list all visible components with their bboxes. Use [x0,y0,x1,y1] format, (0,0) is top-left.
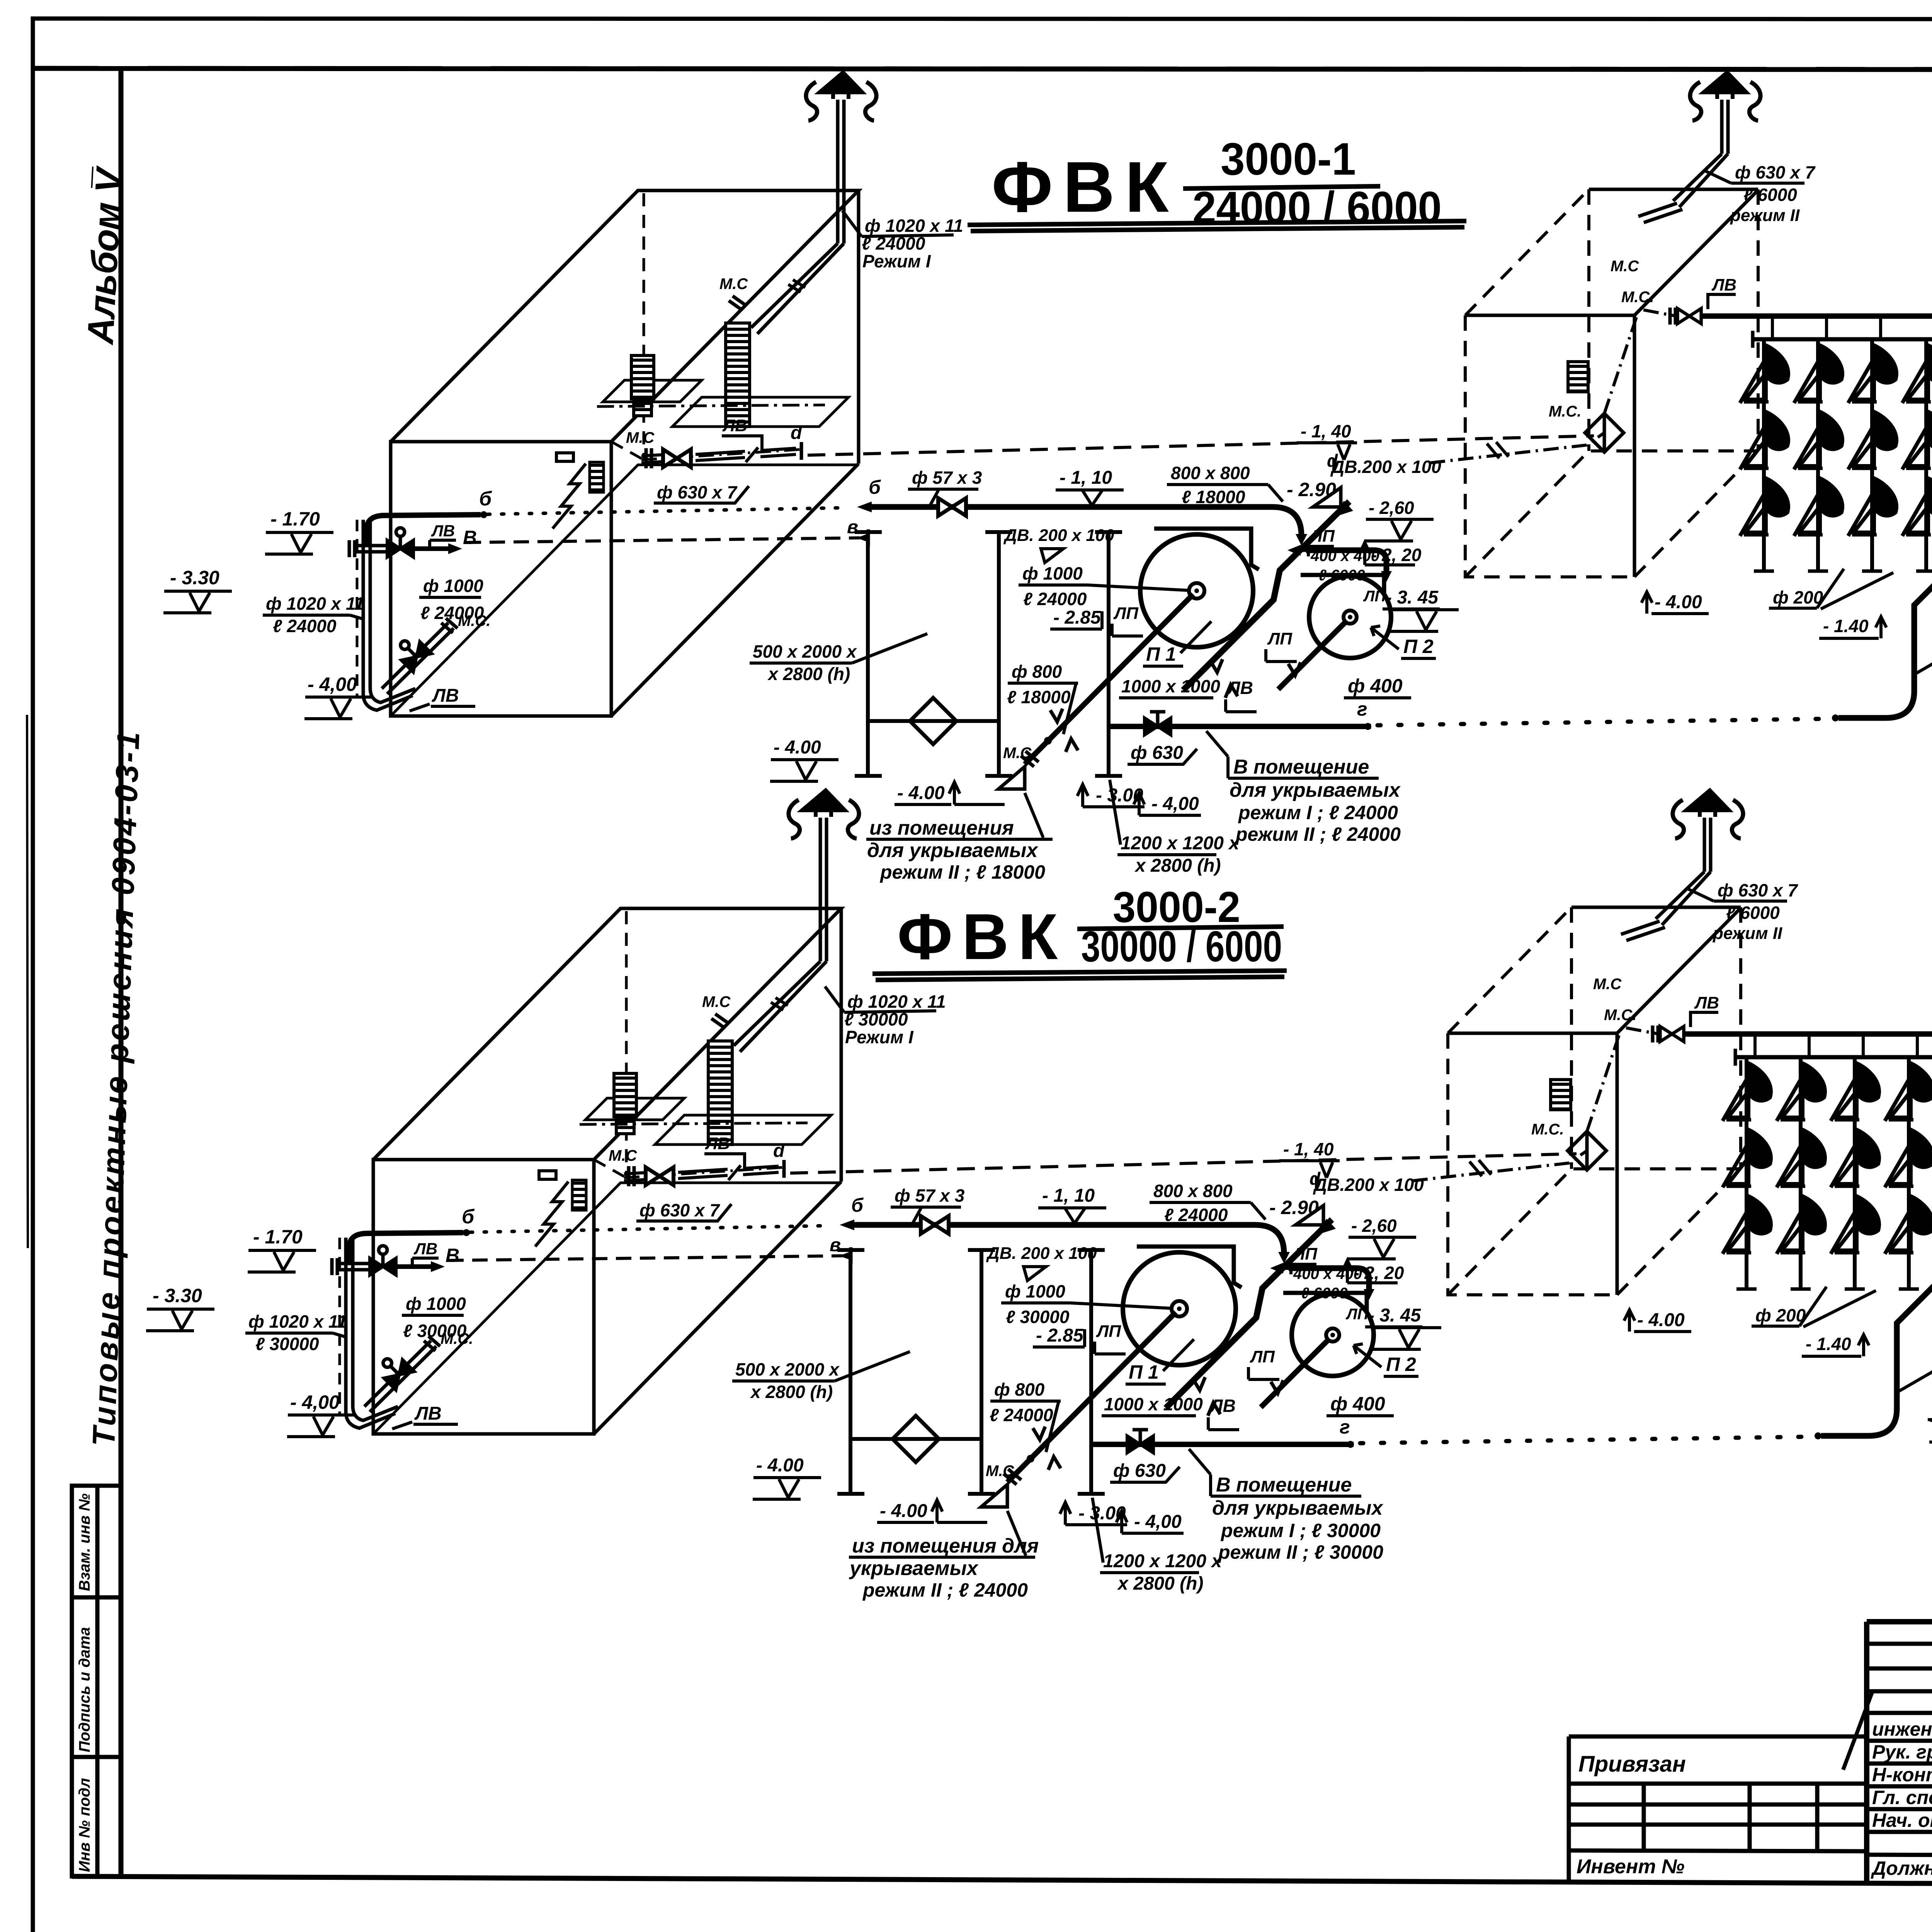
svg-text:ф 1020 х 11: ф 1020 х 11 [865,216,963,236]
svg-text:ЛП: ЛП [1345,1306,1369,1323]
svg-text:режим II ; ℓ 30000: режим II ; ℓ 30000 [1218,1541,1383,1563]
svg-text:ℓ 6000: ℓ 6000 [1301,1285,1348,1302]
svg-text:ЛВ: ЛВ [705,1134,730,1153]
svg-text:М.С: М.С [609,1147,637,1164]
junction dot on shaft [1044,737,1052,745]
filter platform slabs [603,380,849,427]
svg-text:- 4,00: - 4,00 [1151,794,1199,814]
valve MC in box [663,449,691,467]
roof vent 1 [806,72,876,121]
main distribution duct [1702,313,1932,319]
svg-text:ДВ.200 х 100: ДВ.200 х 100 [1313,1175,1424,1195]
svg-text:М.С: М.С [1003,745,1032,762]
diamond damper [910,698,956,744]
dashed line v [466,538,860,543]
diffuser 1.2 [1740,411,1789,469]
flange on lower pipe [441,618,457,633]
vent 1 shaft [838,100,844,243]
svg-text:ℓ 24000: ℓ 24000 [990,1405,1053,1425]
title block: middle grid [1867,1622,1932,1884]
svg-text:ф 200: ф 200 [1773,587,1823,607]
supply plenum left wall [868,532,999,776]
vent 1 duct break marks [788,280,805,292]
svg-text:800 х 800: 800 х 800 [1153,1181,1233,1201]
svg-text:М.С.: М.С. [458,612,490,629]
dashed line d [808,436,1594,455]
svg-text:1200 х 1200 х: 1200 х 1200 х [1121,833,1240,854]
svg-text:- 4.00: - 4.00 [1637,1310,1685,1330]
svg-text:укрываемых: укрываемых [849,1557,979,1580]
svg-text:ф 1020 х 11: ф 1020 х 11 [248,1311,347,1332]
node b dot [480,511,487,518]
svg-text:М.С.: М.С. [1549,403,1581,420]
svg-text:ф 57 х 3: ф 57 х 3 [912,468,982,488]
svg-text:ФВК: ФВК [897,900,1067,973]
svg-text:- 4,00: - 4,00 [1134,1512,1182,1532]
duct to point b curved [367,515,481,544]
arrowhead on bypass top [1334,501,1353,517]
svg-text:ф 1000: ф 1000 [406,1294,466,1314]
svg-text:- 1, 40: - 1, 40 [1301,421,1351,441]
svg-text:Н-контр: Н-контр [1872,1764,1932,1786]
air filter hatched block large [726,323,750,427]
fan P2 hub [1344,611,1357,624]
hatched wall strip [590,462,604,492]
svg-text:х 2800 (h): х 2800 (h) [1134,855,1221,876]
svg-text:- 4.00: - 4.00 [1655,592,1702,612]
diffuser 2.1 [1794,345,1843,403]
svg-text:- 1, 40: - 1, 40 [1283,1139,1334,1159]
triangle symbol at shaft end [998,767,1025,789]
svg-text:М.С: М.С [986,1463,1014,1480]
inner frame left border [119,69,124,1876]
svg-text:ЛВ: ЛВ [432,685,459,706]
diffuser 2.2 [1794,411,1843,469]
svg-text:из помещения: из помещения [869,817,1014,839]
svg-text:500 х 2000 х: 500 х 2000 х [753,641,857,662]
diffuser 1.1 [1740,345,1789,403]
duct line g [1110,724,1371,729]
svg-text:М.С.: М.С. [440,1330,473,1347]
svg-text:- 1.40: - 1.40 [1806,1334,1851,1354]
svg-text:- 2, 20: - 2, 20 [1354,1263,1404,1283]
svg-text:ДВ. 200 х 100: ДВ. 200 х 100 [986,1244,1097,1263]
svg-text:ф 800: ф 800 [1012,662,1062,682]
svg-text:- 4.00: - 4.00 [756,1455,804,1476]
svg-text:В: В [463,527,477,548]
LP arrow into fan [1294,549,1332,552]
svg-text:режим II: режим II [1713,924,1782,943]
svg-text:- 4.00: - 4.00 [897,783,945,803]
break slash on d pipe [746,447,758,462]
svg-text:1200 х 1200 х: 1200 х 1200 х [1103,1551,1223,1571]
svg-text:ЛП: ЛП [1267,629,1293,648]
arrowhead into P1 [1296,534,1307,546]
fan P2 casing [1301,575,1384,594]
svg-text:- 3.30: - 3.30 [153,1285,202,1306]
svg-text:режим II ; ℓ 24000: режим II ; ℓ 24000 [1235,823,1401,845]
svg-text:ф 57 х 3: ф 57 х 3 [895,1185,965,1206]
svg-text:в: в [847,517,858,537]
svg-text:- 4.00: - 4.00 [880,1501,927,1521]
svg-text:М.С.: М.С. [1604,1007,1636,1024]
inlet duct dash-dot [1430,433,1604,463]
svg-text:Режим I: Режим I [862,251,931,271]
svg-text:П 2: П 2 [1386,1354,1416,1375]
svg-text:- 1.40: - 1.40 [1823,616,1869,636]
svg-text:П 1: П 1 [1129,1361,1159,1383]
hatched unit in right box [1568,362,1588,392]
node g2 dot [1832,714,1839,721]
svg-text:ф 630: ф 630 [1113,1461,1166,1481]
left stamp table [72,1486,121,1876]
left box hidden edges [611,193,644,460]
svg-text:П 2: П 2 [1403,636,1434,657]
svg-text:- 4.00: - 4.00 [774,737,821,758]
svg-text:Взам. инв №: Взам. инв № [76,1493,93,1591]
valve on line b [938,498,966,516]
damper flag mid [1041,549,1063,563]
svg-text:- 2.85: - 2.85 [1053,607,1101,628]
svg-text:М.С: М.С [1593,976,1622,993]
arrowhead v [856,533,869,543]
svg-text:800 х 800: 800 х 800 [1171,463,1250,483]
svg-text:ф 1020 х 11: ф 1020 х 11 [847,992,946,1012]
svg-text:ЛВ: ЛВ [413,1240,437,1258]
zigzag break [553,464,586,529]
intake header pipe [355,546,386,552]
vent 2 shaft [1722,100,1728,154]
svg-text:В помещение: В помещение [1216,1474,1352,1496]
air heater hatched block small [631,355,654,399]
stub 3 [1879,316,1882,339]
svg-text:ЛВ: ЛВ [431,522,455,540]
svg-text:ℓ 30000: ℓ 30000 [255,1334,319,1354]
lower inclined pipe [382,623,454,694]
plenum caps [855,532,1012,776]
inner frame bottom border [72,1876,1932,1886]
flow mark L on shaft [1066,739,1078,752]
svg-text:d: d [773,1141,785,1161]
svg-text:- 1.70: - 1.70 [253,1226,303,1248]
right shelter box solid edges [1465,189,1758,577]
bypass S duct [1183,502,1349,690]
svg-text:М.С: М.С [719,276,748,293]
svg-text:режим II ; ℓ 18000: режим II ; ℓ 18000 [879,861,1045,883]
svg-text:Нач. отд.: Нач. отд. [1872,1810,1932,1831]
flange on inclined duct [729,296,746,310]
svg-text:режим II ; ℓ 24000: режим II ; ℓ 24000 [862,1579,1028,1601]
stub 1 [1771,316,1774,339]
fan P1 hub [1189,583,1204,599]
svg-text:- 2,60: - 2,60 [1369,498,1414,518]
valve with hand wheel V2 [393,633,432,672]
svg-text:из помещения для: из помещения для [852,1535,1039,1557]
svg-text:ф 400: ф 400 [1330,1393,1385,1415]
diffuser 3.1 [1848,345,1897,403]
fan P1 shaft duct [1025,594,1193,764]
svg-text:ЛП: ЛП [1310,527,1335,546]
left shelter box outline [391,190,859,716]
svg-text:М.С: М.С [1611,258,1639,275]
svg-text:б: б [462,1206,475,1228]
svg-text:- 3. 45: - 3. 45 [1368,1305,1421,1326]
duct elbow into fan P1 [1272,507,1301,536]
arrowhead b [857,502,872,512]
svg-text:ф 630 х 7: ф 630 х 7 [1735,162,1816,182]
svg-text:ЛП: ЛП [1292,1245,1318,1264]
shaft duct 1200x1200 [1107,532,1111,776]
svg-text:ф 630: ф 630 [1131,743,1183,763]
damper triangle right [1313,488,1341,507]
damper triangle right [1296,1206,1323,1225]
svg-text:для укрываемых: для укрываемых [1212,1497,1383,1519]
svg-text:в: в [830,1235,841,1255]
diffuser 3.3 [1848,478,1897,536]
tick at d [800,442,803,460]
dotted line g [1378,719,1831,725]
svg-text:ф 630 х 7: ф 630 х 7 [639,1200,720,1220]
main drop diagonal duct [1838,339,1932,718]
manifold duct [1753,337,1932,342]
svg-text:- 1, 10: - 1, 10 [1042,1185,1095,1206]
svg-text:В: В [446,1245,459,1266]
svg-text:ДВ. 200 х 100: ДВ. 200 х 100 [1003,526,1114,545]
break mark on bypass [1210,659,1223,672]
air filter hatched block small2 [634,400,651,416]
svg-text:ℓ 18000: ℓ 18000 [1007,687,1071,707]
roof vent 2 [1690,72,1760,121]
plenum bottom duct [868,719,999,723]
diffuser 4.1 [1902,345,1932,403]
break mark on P2 shaft [1288,662,1301,675]
svg-text:х 2800 (h): х 2800 (h) [767,664,850,684]
equipment axis dash-dot [597,405,825,406]
svg-text:Рук. гр.: Рук. гр. [1872,1741,1932,1763]
svg-text:ф 1020 х 11: ф 1020 х 11 [266,594,364,614]
valve with hand wheel V1 [387,528,413,557]
right shelter box dashed edges [1465,189,1758,577]
svg-text:ФВК: ФВК [992,147,1179,227]
break marks on inlet [1487,442,1509,458]
fan P2 shaft duct [1278,621,1347,689]
svg-text:инженер: инженер [1872,1718,1932,1740]
svg-text:ℓ 24000: ℓ 24000 [1023,589,1087,609]
title block: left attachment table [1569,1736,1867,1883]
svg-text:М.С: М.С [626,429,655,446]
svg-text:ℓ 24000: ℓ 24000 [273,616,337,636]
diffuser 3.2 [1848,411,1897,469]
svg-text:ℓ 18000: ℓ 18000 [1182,487,1245,507]
svg-text:ℓ 6000: ℓ 6000 [1726,903,1780,923]
svg-text:1000 х 1000: 1000 х 1000 [1104,1394,1203,1414]
intake pipe vertical [363,520,370,694]
svg-text:- 2,60: - 2,60 [1351,1216,1397,1236]
svg-text:ф 400: ф 400 [1348,675,1403,697]
svg-text:режим I ; ℓ 24000: режим I ; ℓ 24000 [1238,802,1398,823]
svg-text:ЛВ: ЛВ [722,416,747,435]
svg-text:ℓ 24000: ℓ 24000 [862,233,925,253]
svg-text:х 2800 (h): х 2800 (h) [750,1382,833,1402]
svg-text:Инвент №: Инвент № [1577,1855,1685,1878]
svg-text:ЛВ: ЛВ [414,1403,442,1424]
fan P1 scroll [1140,534,1253,647]
wall sleeve rect [556,453,573,461]
diffuser 1.3 [1740,478,1789,536]
svg-text:Подпись и дата: Подпись и дата [76,1627,93,1752]
svg-text:ЛП: ЛП [1096,1322,1121,1341]
svg-text:ЛВ: ЛВ [1711,276,1736,294]
duct 400x400 to P2 [1306,550,1386,575]
svg-text:3000-1: 3000-1 [1221,134,1356,185]
svg-text:В помещение: В помещение [1233,756,1369,778]
fan P1 casing [1154,529,1259,570]
svg-text:- 1.70: - 1.70 [270,508,320,530]
manifold end ticks [1753,331,1932,348]
diffuser 2.3 [1794,478,1843,536]
svg-text:М.С: М.С [702,993,731,1010]
svg-text:ДВ.200 х 100: ДВ.200 х 100 [1330,457,1441,477]
pipe double segment right [696,448,796,461]
riser 1 [1762,339,1766,571]
svg-text:режим II: режим II [1730,206,1800,225]
diagonal strike through engineer cell [1843,1692,1872,1770]
svg-text:ЛВ: ЛВ [1209,1396,1236,1416]
svg-text:30000 / 6000: 30000 / 6000 [1081,922,1282,971]
svg-text:ф 1000: ф 1000 [423,576,483,596]
pipe segment at MC valve [641,455,662,463]
svg-text:ЛП: ЛП [1113,604,1139,623]
svg-text:- 4,00: - 4,00 [308,673,357,695]
svg-text:для укрываемых: для укрываемых [1230,779,1401,801]
svg-text:500 х 2000 х: 500 х 2000 х [735,1359,840,1379]
arrowhead into P2 [1381,571,1392,582]
svg-text:ф 630 х 7: ф 630 х 7 [657,482,738,502]
svg-text:Инв № подл: Инв № подл [76,1778,93,1872]
riser duct dash-dot [1604,309,1676,413]
diamond unit [1585,413,1624,452]
svg-text:г: г [1357,698,1367,720]
svg-text:ЛП: ЛП [1250,1347,1275,1366]
svg-text:ф 630 х 7: ф 630 х 7 [1718,880,1798,900]
diffuser 4.3 [1902,478,1932,536]
svg-text:ℓ 6000: ℓ 6000 [1743,185,1797,205]
intake pipe dashed guide [356,520,359,696]
flange at top valve [1670,308,1675,325]
svg-text:ℓ 30000: ℓ 30000 [844,1009,908,1029]
svg-text:ЛП: ЛП [1363,588,1386,605]
svg-text:Привязан: Привязан [1578,1752,1686,1777]
svg-text:б: б [479,488,492,510]
svg-text:- 4,00: - 4,00 [290,1391,340,1413]
svg-text:ф 1000: ф 1000 [1005,1281,1065,1301]
svg-text:б: б [851,1194,864,1216]
riser 4 [1924,339,1928,571]
tick v [867,529,870,546]
dashed line b [488,508,846,514]
stub 2 [1825,316,1828,339]
svg-text:г: г [1340,1416,1350,1438]
svg-text:ф 1000: ф 1000 [1022,563,1083,583]
arrowhead V [448,543,462,554]
fan P2 scroll [1309,576,1391,658]
flange on shaft [1021,751,1039,767]
riser 3 [1870,339,1874,571]
svg-text:- 1, 10: - 1, 10 [1060,468,1112,488]
svg-text:Режим I: Режим I [845,1027,914,1047]
flow mark V on shaft [1050,709,1063,722]
svg-text:- 3. 45: - 3. 45 [1386,587,1439,608]
svg-text:ℓ 6000: ℓ 6000 [1318,567,1365,584]
dash-dot duct axis in box [641,449,801,460]
intake pipe bottom elbow [363,688,415,710]
diffuser 4.2 [1902,411,1932,469]
svg-text:ф 200: ф 200 [1755,1305,1806,1325]
svg-text:Гл. спец.: Гл. спец. [1872,1787,1932,1808]
duct to point V [413,546,451,551]
svg-text:П 1: П 1 [1146,643,1176,665]
damper flag mid [1024,1267,1046,1281]
shaft caps [1095,532,1122,776]
svg-text:Должн.: Должн. [1871,1857,1932,1879]
svg-text:1000 х 1000: 1000 х 1000 [1121,676,1220,696]
duct line b [869,504,1272,510]
svg-text:М.С.: М.С. [1621,289,1654,306]
intake flange top [349,540,355,557]
svg-text:режим I ; ℓ 30000: режим I ; ℓ 30000 [1220,1520,1381,1541]
top valve [1677,308,1701,323]
LV bracket top [1708,294,1736,309]
svg-text:б: б [869,476,881,498]
riser 2 [1816,339,1820,571]
svg-text:М.С.: М.С. [1531,1121,1564,1138]
flange MC [646,448,651,468]
svg-text:ф 800: ф 800 [994,1379,1045,1400]
svg-text:ℓ 24000: ℓ 24000 [1164,1205,1228,1225]
node g dot [1364,723,1371,730]
svg-text:- 2, 20: - 2, 20 [1371,545,1422,565]
vent 2 elbow [1638,154,1728,223]
scanner edge line left [27,715,28,1248]
valve on line g [1145,712,1171,735]
svg-text:ЛВ: ЛВ [1227,678,1253,698]
svg-text:- 2.85: - 2.85 [1036,1325,1084,1346]
svg-text:ЛВ: ЛВ [1694,993,1719,1012]
svg-text:d: d [791,423,803,443]
svg-text:для укрываемых: для укрываемых [867,839,1038,862]
svg-text:ℓ 30000: ℓ 30000 [1006,1307,1070,1327]
svg-text:х 2800 (h): х 2800 (h) [1117,1573,1203,1594]
vent 1 elbow duct [751,243,844,334]
top heading band line [33,68,1932,70]
svg-text:- 3.30: - 3.30 [170,567,219,588]
